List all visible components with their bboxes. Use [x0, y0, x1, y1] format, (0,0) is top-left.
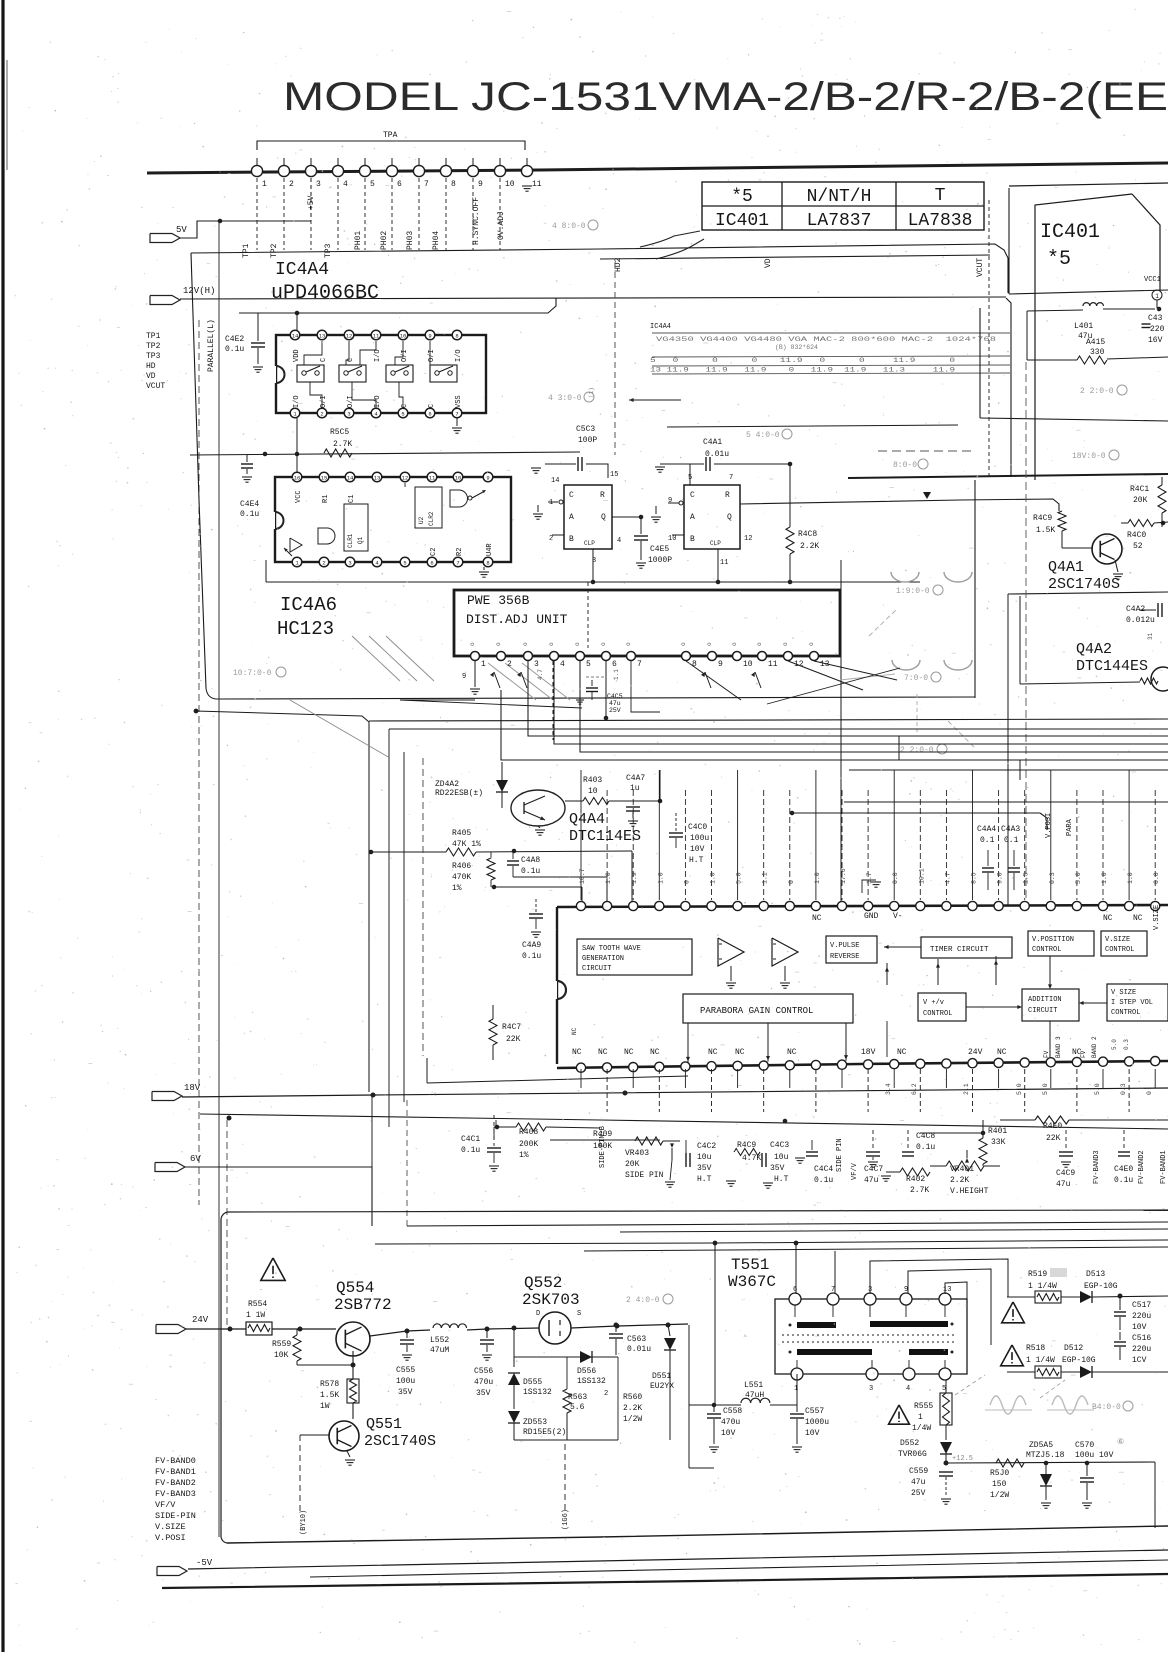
svg-text:O/I: O/I [347, 395, 355, 408]
svg-text:o: o [574, 642, 581, 646]
svg-text:1W: 1W [320, 1402, 330, 1411]
svg-text:R405: R405 [452, 829, 471, 838]
svg-text:35V: 35V [476, 1389, 491, 1398]
svg-text:35V: 35V [398, 1388, 413, 1397]
svg-text:IC4A4: IC4A4 [275, 260, 329, 280]
svg-text:o: o [706, 642, 713, 646]
svg-text:2: 2 [604, 1390, 608, 1398]
svg-text:0.3: 0.3 [1123, 1039, 1130, 1050]
svg-text:TPA: TPA [383, 131, 398, 140]
svg-text:TP3: TP3 [146, 352, 161, 361]
svg-text:o: o [625, 642, 632, 646]
svg-text:4 3:0-0: 4 3:0-0 [548, 394, 582, 403]
svg-text:10: 10 [505, 180, 515, 189]
svg-text:470K: 470K [452, 873, 471, 882]
svg-text:o: o [680, 642, 687, 646]
svg-text:NC: NC [571, 1027, 578, 1035]
svg-text:100P: 100P [578, 436, 597, 445]
svg-text:o: o [808, 642, 815, 646]
svg-text:9.0: 9.0 [997, 872, 1004, 884]
svg-text:VDD: VDD [293, 349, 301, 362]
svg-text:C5C3: C5C3 [576, 425, 595, 434]
svg-text:U2: U2 [418, 516, 425, 524]
svg-text:VSS: VSS [455, 395, 463, 408]
svg-text:18V: 18V [184, 1083, 201, 1093]
svg-text:T551: T551 [731, 1256, 769, 1274]
svg-text:C: C [569, 491, 574, 500]
svg-text:10.1: 10.1 [918, 868, 925, 884]
svg-text:9: 9 [718, 660, 723, 669]
svg-text:SIDE-PIN: SIDE-PIN [155, 1511, 196, 1521]
svg-text:6.2: 6.2 [911, 1083, 918, 1095]
svg-text:100u 10V: 100u 10V [1075, 1451, 1114, 1460]
svg-text:470u: 470u [474, 1378, 493, 1387]
svg-text:R2: R2 [456, 548, 464, 556]
svg-text:D513: D513 [1086, 1270, 1105, 1279]
svg-text:4.7: 4.7 [944, 872, 951, 884]
svg-text:N/NT/H: N/NT/H [807, 187, 872, 207]
svg-text:0.8: 0.8 [892, 872, 899, 884]
svg-text:Q4A4: Q4A4 [569, 811, 605, 828]
svg-text:H.T: H.T [774, 1175, 789, 1184]
svg-text:PARA: PARA [1066, 818, 1074, 836]
svg-text:R5J0: R5J0 [990, 1469, 1009, 1478]
svg-text:VF/V: VF/V [155, 1500, 176, 1510]
svg-text:V.SIZE: V.SIZE [1153, 905, 1161, 930]
svg-text:SIDE PIN: SIDE PIN [836, 1138, 844, 1172]
svg-text:220: 220 [1150, 325, 1165, 334]
svg-text:3.4: 3.4 [885, 1083, 892, 1095]
svg-text:o: o [731, 642, 738, 646]
svg-text:1:9:0-0: 1:9:0-0 [896, 587, 930, 596]
svg-text:35V: 35V [697, 1164, 712, 1173]
svg-text:CIRCUIT: CIRCUIT [1028, 1007, 1057, 1015]
svg-text:3: 3 [316, 180, 321, 189]
svg-text:4: 4 [343, 180, 348, 189]
svg-text:I/O: I/O [374, 395, 382, 408]
svg-text:12: 12 [402, 475, 409, 482]
svg-text:CLR1: CLR1 [347, 533, 354, 548]
svg-text:1SS132: 1SS132 [523, 1388, 552, 1397]
svg-text:C4A4 C4A3: C4A4 C4A3 [977, 825, 1020, 834]
svg-text:0.1u: 0.1u [916, 1143, 935, 1152]
svg-text:0.3: 0.3 [1049, 872, 1056, 884]
svg-text:1.0: 1.0 [1101, 872, 1108, 884]
svg-text:330: 330 [1090, 348, 1105, 357]
svg-text:220u: 220u [1132, 1345, 1151, 1354]
svg-text:1.1: 1.1 [762, 872, 769, 884]
svg-text:IC4A6: IC4A6 [280, 594, 337, 616]
svg-text:FV-BAND3: FV-BAND3 [1093, 1150, 1101, 1184]
svg-text:1.0: 1.0 [1127, 872, 1134, 884]
svg-text:VG4350 VG4400 VG4480 VGA MAC-2: VG4350 VG4400 VG4480 VGA MAC-2 800*600 M… [656, 336, 996, 343]
svg-text:4: 4 [906, 1385, 910, 1393]
svg-text:A415: A415 [1086, 338, 1105, 347]
svg-text:7:0-0: 7:0-0 [904, 674, 928, 683]
svg-text:4: 4 [560, 660, 565, 669]
svg-text:PARALLEL(L): PARALLEL(L) [207, 319, 216, 372]
svg-text:10u: 10u [774, 1153, 789, 1162]
svg-text:C557: C557 [805, 1407, 824, 1416]
svg-text:C4E5: C4E5 [650, 545, 669, 554]
svg-text:H.T: H.T [697, 1175, 712, 1184]
svg-text:47u: 47u [911, 1478, 926, 1487]
svg-text:I STEP VOL: I STEP VOL [1111, 999, 1153, 1007]
svg-text:47u: 47u [609, 700, 621, 707]
svg-text:H.T: H.T [689, 856, 704, 865]
svg-text:TIMER CIRCUIT: TIMER CIRCUIT [930, 946, 989, 954]
svg-text:S: S [577, 1310, 581, 1318]
svg-text:LA7838: LA7838 [908, 211, 973, 231]
svg-text:V SIZE: V SIZE [1111, 989, 1136, 997]
svg-text:R518: R518 [1026, 1344, 1045, 1353]
svg-text:D: D [536, 1310, 540, 1318]
svg-text:1.0: 1.0 [814, 872, 821, 884]
svg-text:C4A9: C4A9 [522, 941, 541, 950]
svg-text:BAND 2: BAND 2 [1091, 1036, 1098, 1058]
svg-text:200K: 200K [519, 1140, 538, 1149]
svg-text:o: o [469, 642, 476, 646]
svg-text:V.HEIGHT: V.HEIGHT [950, 1187, 989, 1196]
svg-text:6: 6 [612, 660, 617, 669]
svg-text:5 0 0 0 11.9: 5 0 0 0 11.9 0 0 11.9 0 [650, 357, 955, 364]
svg-text:FV-BAND2: FV-BAND2 [1138, 1150, 1146, 1184]
svg-text:C4E2: C4E2 [225, 335, 244, 344]
svg-text:R4C8: R4C8 [798, 530, 817, 539]
svg-text:R578: R578 [320, 1380, 339, 1389]
svg-text:NC: NC [787, 1048, 797, 1057]
svg-text:NC: NC [812, 914, 822, 923]
svg-text:22K: 22K [506, 1035, 521, 1044]
svg-text:1: 1 [794, 1385, 798, 1393]
svg-text:C516: C516 [1132, 1334, 1151, 1343]
svg-text:5V: 5V [176, 225, 187, 235]
svg-text:CIRCUIT: CIRCUIT [582, 965, 611, 973]
svg-text:35V: 35V [770, 1164, 785, 1173]
svg-text:24V: 24V [968, 1048, 983, 1057]
svg-text:ADDITION: ADDITION [1028, 996, 1062, 1004]
svg-text:100u: 100u [396, 1377, 415, 1386]
svg-text:DTC144ES: DTC144ES [1076, 658, 1148, 675]
svg-text:3: 3 [347, 411, 350, 418]
svg-text:0.01u: 0.01u [627, 1345, 651, 1354]
svg-text:GND: GND [864, 912, 879, 921]
svg-text:1.5K: 1.5K [320, 1391, 339, 1400]
svg-text:C517: C517 [1132, 1301, 1151, 1310]
svg-text:0.01u: 0.01u [705, 450, 729, 459]
svg-text:R4C7: R4C7 [502, 1023, 521, 1032]
svg-text:2.1: 2.1 [963, 1083, 970, 1095]
svg-text:IC401: IC401 [1040, 221, 1100, 244]
svg-text:10u: 10u [697, 1153, 712, 1162]
svg-text:FV-BAND3: FV-BAND3 [155, 1489, 196, 1499]
svg-text:2.7K: 2.7K [333, 440, 352, 449]
svg-text:31: 31 [1147, 632, 1154, 640]
svg-text:CONTROL: CONTROL [923, 1010, 952, 1018]
svg-text:C563: C563 [627, 1335, 646, 1344]
svg-text:11: 11 [373, 333, 380, 340]
svg-text:2.2K: 2.2K [623, 1404, 642, 1413]
svg-text:9: 9 [462, 673, 466, 681]
svg-text:20K: 20K [625, 1160, 640, 1169]
svg-text:100u: 100u [690, 834, 709, 843]
svg-text:R560: R560 [623, 1393, 642, 1402]
svg-text:10: 10 [400, 333, 407, 340]
svg-text:1SS132: 1SS132 [577, 1377, 606, 1386]
svg-text:MODEL JC-1531VMA-2/B-2/R-2/B-2: MODEL JC-1531VMA-2/B-2/R-2/B-2(EE [283, 75, 1168, 119]
svg-text:1u: 1u [630, 784, 640, 793]
svg-text:R559: R559 [272, 1340, 291, 1349]
svg-text:0.1u: 0.1u [461, 1146, 480, 1155]
svg-text:R555: R555 [914, 1402, 933, 1411]
svg-text:V.POSI: V.POSI [155, 1533, 186, 1543]
svg-text:B4:0-0: B4:0-0 [1092, 1403, 1121, 1412]
svg-text:RD22ESB(±): RD22ESB(±) [435, 789, 483, 798]
svg-text:C1: C1 [348, 495, 356, 503]
svg-text:11: 11 [768, 660, 778, 669]
svg-text:C4C0: C4C0 [688, 823, 707, 832]
svg-text:1%: 1% [452, 884, 462, 893]
svg-text:NC: NC [735, 1048, 745, 1057]
svg-text:Q: Q [601, 513, 606, 522]
svg-text:15: 15 [610, 471, 618, 479]
svg-text:B: B [569, 535, 574, 544]
svg-text:D551: D551 [652, 1372, 671, 1381]
svg-text:16: 16 [294, 475, 301, 482]
svg-text:R: R [600, 491, 605, 500]
svg-text:o: o [782, 642, 789, 646]
svg-text:DTC114ES: DTC114ES [569, 828, 641, 845]
svg-text:C558: C558 [723, 1407, 742, 1416]
svg-text:0.1u: 0.1u [814, 1176, 833, 1185]
svg-text:A: A [690, 513, 695, 522]
svg-text:7: 7 [455, 411, 458, 418]
svg-text:L551: L551 [744, 1381, 763, 1390]
svg-text:U4R: U4R [486, 543, 494, 556]
svg-text:2.7K: 2.7K [910, 1186, 929, 1195]
svg-text:13: 13 [374, 475, 381, 482]
svg-text:I/O: I/O [293, 395, 301, 408]
svg-text:Q4A2: Q4A2 [1076, 641, 1112, 658]
svg-text:V.POSITION: V.POSITION [1032, 936, 1074, 944]
svg-text:NC: NC [1103, 914, 1113, 923]
svg-text:5: 5 [401, 411, 404, 418]
svg-text:C43: C43 [1148, 314, 1163, 323]
svg-text:B: B [690, 535, 695, 544]
svg-text:C570: C570 [1075, 1441, 1094, 1450]
svg-text:3: 3 [869, 1385, 873, 1393]
svg-text:I/O: I/O [455, 349, 463, 362]
svg-text:0.1u: 0.1u [522, 952, 541, 961]
svg-text:ZD4A2: ZD4A2 [435, 780, 459, 789]
svg-text:VR403: VR403 [625, 1149, 649, 1158]
svg-text:R519: R519 [1028, 1270, 1047, 1279]
svg-text:O/I: O/I [428, 349, 436, 362]
svg-text:10V: 10V [690, 845, 705, 854]
svg-text:10.7: 10.7 [579, 868, 586, 884]
svg-text:FV-BAND1: FV-BAND1 [155, 1467, 196, 1477]
svg-text:SIDE PIN: SIDE PIN [625, 1171, 664, 1180]
svg-text:C: C [320, 358, 328, 362]
svg-text:11: 11 [429, 475, 436, 482]
svg-text:Q552: Q552 [524, 1274, 562, 1292]
svg-text:*5: *5 [1047, 248, 1071, 271]
svg-text:LA7837: LA7837 [807, 211, 872, 231]
svg-text:8: 8 [455, 333, 458, 340]
svg-text:0: 0 [683, 880, 690, 884]
svg-text:9: 9 [478, 180, 483, 189]
svg-text:C4E4: C4E4 [240, 500, 259, 509]
svg-text:-5V: -5V [196, 1558, 213, 1568]
svg-text:D555: D555 [523, 1378, 542, 1387]
svg-text:o: o [600, 642, 607, 646]
svg-text:IC4A4: IC4A4 [650, 323, 671, 331]
svg-text:PH02: PH02 [380, 231, 389, 250]
svg-text:C4C5: C4C5 [607, 693, 623, 700]
svg-text:FV: FV [1080, 1050, 1087, 1058]
svg-text:C4E0: C4E0 [1114, 1165, 1133, 1174]
svg-text:150: 150 [992, 1480, 1007, 1489]
svg-text:0.1u: 0.1u [240, 510, 259, 519]
svg-text:V.SIZE: V.SIZE [1105, 936, 1130, 944]
svg-text:C556: C556 [474, 1367, 493, 1376]
svg-text:1/4W: 1/4W [912, 1424, 931, 1433]
svg-text:4: 4 [617, 537, 621, 545]
svg-text:7: 7 [456, 560, 459, 567]
svg-text:7: 7 [729, 474, 733, 482]
svg-text:14: 14 [551, 477, 559, 485]
svg-text:C2: C2 [430, 548, 438, 556]
svg-text:A: A [569, 513, 574, 522]
svg-text:13: 13 [319, 333, 326, 340]
svg-text:12V(H): 12V(H) [183, 286, 215, 296]
svg-text:*5: *5 [731, 187, 753, 207]
svg-text:TP3: TP3 [324, 243, 333, 258]
svg-text:2 4:0-0: 2 4:0-0 [626, 1296, 660, 1305]
svg-text:CLR2: CLR2 [428, 511, 435, 526]
svg-text:C: C [690, 491, 695, 500]
svg-text:8.5: 8.5 [971, 872, 978, 884]
svg-text:6: 6 [397, 180, 402, 189]
svg-text:Q: Q [727, 513, 732, 522]
svg-text:T: T [935, 186, 946, 206]
svg-text:NC: NC [572, 1048, 582, 1057]
svg-text:PWE 356B: PWE 356B [467, 593, 530, 608]
svg-text:5.0: 5.0 [1075, 872, 1082, 884]
svg-text:1.0: 1.0 [710, 872, 717, 884]
svg-text:2SB772: 2SB772 [334, 1296, 392, 1314]
svg-text:10: 10 [588, 787, 598, 796]
svg-text:17.6: 17.6 [840, 868, 847, 884]
svg-text:10: 10 [743, 660, 753, 669]
svg-text:D552: D552 [900, 1439, 919, 1448]
svg-text:VD: VD [146, 372, 156, 381]
svg-text:4 8:0-0: 4 8:0-0 [552, 222, 586, 231]
svg-text:C555: C555 [396, 1366, 415, 1375]
svg-text:VCUT: VCUT [976, 258, 985, 277]
svg-text:PH01: PH01 [354, 231, 363, 250]
svg-text:5.6: 5.6 [570, 1403, 585, 1412]
svg-text:PH03: PH03 [406, 231, 415, 250]
svg-text:EGP-10G: EGP-10G [1062, 1356, 1096, 1365]
svg-text:1000u: 1000u [805, 1418, 829, 1427]
svg-text:C4A1: C4A1 [703, 438, 722, 447]
svg-text:NC: NC [897, 1048, 907, 1057]
svg-text:0.1 0.1: 0.1 0.1 [980, 836, 1019, 845]
svg-text:V.POSI: V.POSI [1045, 813, 1053, 838]
svg-text:IC401: IC401 [715, 211, 769, 231]
svg-text:2: 2 [322, 560, 325, 567]
svg-text:Q4A1: Q4A1 [1048, 559, 1084, 576]
svg-text:0: 0 [788, 880, 795, 884]
svg-text:2SC1740S: 2SC1740S [1048, 576, 1120, 593]
svg-text:1.5: 1.5 [1023, 872, 1030, 884]
svg-text:R554: R554 [248, 1300, 267, 1309]
svg-text:5.0: 5.0 [1111, 1039, 1118, 1050]
svg-text:25V: 25V [911, 1489, 926, 1498]
svg-text:R1: R1 [322, 495, 330, 503]
svg-text:C: C [428, 404, 436, 408]
svg-text:ZD5A5: ZD5A5 [1029, 1441, 1053, 1450]
svg-text:12: 12 [346, 333, 353, 340]
svg-text:0.1u: 0.1u [521, 867, 540, 876]
svg-text:7: 7 [637, 660, 642, 669]
svg-text:18V: 18V [861, 1048, 876, 1057]
svg-text:2: 2 [320, 411, 323, 418]
svg-text:SIDE-PIN-B: SIDE-PIN-B [599, 1126, 607, 1168]
svg-text:6V: 6V [190, 1154, 201, 1164]
svg-text:1/2W: 1/2W [990, 1491, 1009, 1500]
svg-text:10:7:0-0: 10:7:0-0 [233, 669, 272, 678]
svg-text:OV.ADJ: OV.ADJ [497, 211, 506, 240]
svg-text:o: o [548, 642, 555, 646]
svg-text:NC: NC [624, 1048, 634, 1057]
svg-text:HC123: HC123 [277, 618, 334, 640]
svg-text:12: 12 [794, 660, 804, 669]
svg-text:13: 13 [943, 1286, 951, 1294]
svg-text:HD: HD [146, 362, 156, 371]
svg-text:TP1: TP1 [146, 332, 161, 341]
svg-text:9: 9 [668, 497, 672, 505]
svg-text:1: 1 [918, 1413, 923, 1422]
svg-text:2 2:0-0: 2 2:0-0 [900, 746, 934, 755]
svg-text:10V: 10V [1132, 1323, 1147, 1332]
svg-text:VCC1: VCC1 [1144, 276, 1161, 284]
svg-text:3: 3 [348, 560, 351, 567]
svg-text:5: 5 [403, 560, 406, 567]
svg-text:9: 9 [428, 333, 431, 340]
svg-text:C4C4: C4C4 [814, 1165, 833, 1174]
svg-text:8: 8 [486, 560, 489, 567]
svg-text:PH04: PH04 [432, 231, 441, 250]
svg-text:0.3: 0.3 [1120, 1083, 1127, 1095]
svg-text:10: 10 [668, 535, 676, 543]
svg-text:GENERATION: GENERATION [582, 955, 624, 963]
svg-text:CONTROL: CONTROL [1032, 946, 1061, 954]
svg-text:V.SIZE: V.SIZE [155, 1522, 186, 1532]
svg-text:6: 6 [430, 560, 433, 567]
svg-text:D556: D556 [577, 1367, 596, 1376]
svg-text:VCUT: VCUT [146, 382, 165, 391]
svg-text:2: 2 [289, 180, 294, 189]
svg-text:0: 0 [1146, 1091, 1153, 1095]
svg-text:24V: 24V [192, 1315, 209, 1325]
svg-text:11: 11 [720, 559, 728, 567]
svg-text:R4C9: R4C9 [1033, 514, 1052, 523]
svg-text:I/O: I/O [374, 349, 382, 362]
svg-text:O/I: O/I [401, 349, 409, 362]
svg-text:15: 15 [321, 475, 328, 482]
